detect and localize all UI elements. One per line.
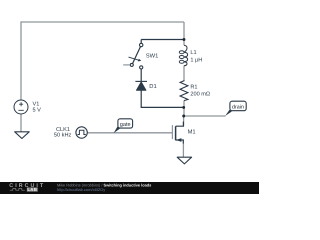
svg-text:50 kHz: 50 kHz	[54, 132, 72, 139]
svg-text:M1: M1	[188, 130, 196, 136]
wire SW1 bottom to D1 (dark)	[140, 69, 142, 81]
svg-text:LAB: LAB	[27, 187, 37, 192]
R1 value label	[190, 84, 210, 97]
svg-text:1 µH: 1 µH	[190, 58, 202, 64]
svg-text:L1: L1	[190, 50, 196, 56]
clock source CLK1	[76, 127, 87, 138]
wire L1 bottom to R1 top	[183, 66, 185, 80]
nmos transistor M1	[172, 122, 183, 144]
svg-text:http://circuitlab.com/c6t2Oy: http://circuitlab.com/c6t2Oy	[57, 187, 105, 192]
inductor L1	[179, 45, 187, 66]
SW1 label	[146, 53, 159, 60]
footer url line	[57, 187, 105, 192]
footer logo CIRCUIT	[9, 183, 45, 189]
wire top horizontal from V1 to right branch	[21, 21, 184, 23]
wire right vertical from top corner to node A	[183, 22, 185, 40]
CLK1 value label	[54, 127, 72, 139]
svg-text:200 mΩ: 200 mΩ	[190, 92, 210, 98]
diode D1	[135, 81, 147, 90]
ground under M1	[177, 157, 191, 164]
footer logo waveform	[10, 189, 25, 191]
svg-text:5 V: 5 V	[33, 107, 42, 113]
V1 value label	[33, 102, 42, 114]
footer bar	[0, 182, 259, 194]
ground under V1	[15, 132, 30, 139]
svg-text:drain: drain	[232, 104, 244, 110]
wire D1 anode down and right to node B (dark)	[141, 90, 184, 107]
footer title line	[57, 182, 151, 187]
wire R1 bottom through nodes to M1 drain	[183, 101, 185, 127]
svg-text:SW1: SW1	[146, 53, 159, 60]
L1 value label	[190, 50, 202, 64]
wire SW1 branch horizontal (dark)	[141, 40, 184, 44]
switch SW1	[123, 43, 143, 69]
wire node A to L1 top	[183, 40, 185, 46]
node B junction dot (D1 join)	[182, 106, 185, 109]
svg-text:gate: gate	[120, 122, 131, 128]
node C junction dot (drain tap)	[182, 115, 185, 118]
wire M1 source to ground	[182, 143, 184, 157]
svg-text:R1: R1	[190, 84, 197, 90]
net flag drain	[225, 101, 246, 116]
D1 label	[149, 84, 156, 90]
M1 label	[188, 130, 196, 136]
wire drain node to drain flag	[184, 115, 226, 117]
wire left vertical down to V1	[20, 21, 22, 100]
wire CLK1 to M1 gate	[87, 132, 172, 134]
wire V1 bottom to ground	[20, 113, 22, 131]
footer logo LAB	[27, 187, 38, 192]
resistor R1	[180, 80, 188, 101]
node A junction dot	[183, 38, 186, 41]
svg-text:D1: D1	[149, 84, 156, 90]
voltage source V1	[14, 100, 28, 114]
net flag gate	[114, 119, 133, 133]
